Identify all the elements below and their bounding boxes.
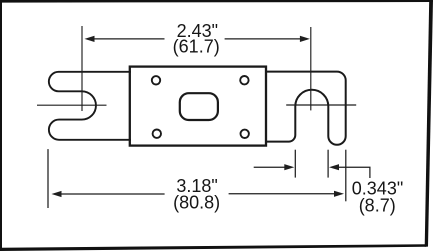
dimension 0.343 left-pointing arrowhead bbox=[329, 164, 339, 170]
svg-text:(61.7): (61.7) bbox=[173, 37, 220, 57]
dimension 2.43 line left segment bbox=[94, 38, 165, 40]
right terminal horizontal centerline bbox=[286, 104, 356, 106]
dimension 2.43 right arrowhead bbox=[300, 36, 310, 42]
dimension 0.343 right-pointing arrowhead bbox=[284, 164, 294, 170]
border frame bottom bbox=[0, 244, 426, 251]
left slot vertical centerline / 2.43 extension bbox=[81, 26, 83, 111]
left fork terminal outline bbox=[49, 72, 131, 140]
fuse body rectangle bbox=[130, 67, 266, 146]
dimension 3.18 right extension line bbox=[345, 150, 347, 202]
border frame top bbox=[0, 0, 433, 3]
dimension 3.18 left extension line bbox=[47, 149, 49, 208]
dimension 0.343 elbow leader to text bbox=[338, 167, 370, 178]
screw hole bottom-right bbox=[241, 130, 249, 138]
border frame right bbox=[425, 0, 433, 247]
dimension 2.43 line right segment bbox=[225, 38, 302, 40]
svg-text:(80.8): (80.8) bbox=[173, 193, 220, 213]
right slot vertical centerline / 2.43 extension bbox=[310, 27, 312, 110]
dimension 0.343 right extension line bbox=[327, 150, 329, 178]
screw hole top-right bbox=[240, 76, 248, 84]
dimension 3.18 right arrowhead bbox=[334, 191, 344, 197]
dimension 3.18 line right segment bbox=[229, 193, 337, 195]
dimension 2.43 left arrowhead bbox=[85, 36, 95, 42]
svg-text:(8.7): (8.7) bbox=[359, 195, 396, 215]
center inspection window bbox=[180, 93, 218, 120]
dimension 3.18 line left segment bbox=[60, 193, 165, 195]
right slotted terminal outline bbox=[265, 72, 346, 145]
left terminal horizontal centerline bbox=[37, 104, 107, 106]
dimension 3.18 left arrowhead bbox=[52, 191, 62, 197]
dimension 0.343 left leader line bbox=[254, 166, 287, 168]
screw hole top-left bbox=[152, 76, 160, 84]
dimension 0.343 left extension line bbox=[294, 150, 296, 178]
screw hole bottom-left bbox=[153, 130, 161, 138]
border frame left bbox=[0, 0, 2, 251]
